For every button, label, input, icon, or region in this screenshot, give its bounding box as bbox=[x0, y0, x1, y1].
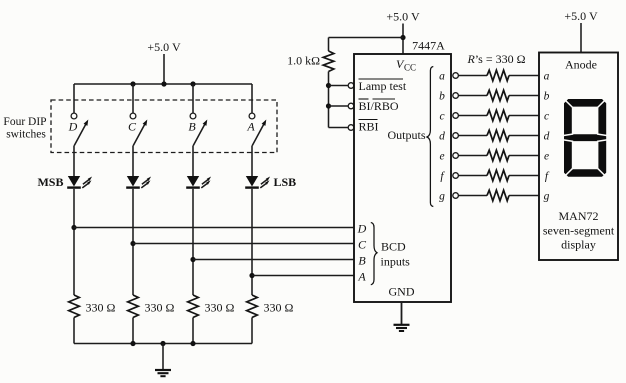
junction dot lamp-test branch bbox=[326, 83, 331, 88]
junction dot B column on bus bbox=[190, 81, 195, 86]
pin bubble output g bbox=[453, 193, 459, 199]
svg-text:BCD: BCD bbox=[381, 240, 406, 254]
pin label segment c (display) bbox=[544, 111, 549, 123]
wire top of R5 bbox=[328, 38, 330, 52]
label R5 value 1.0 kohm bbox=[287, 54, 320, 68]
svg-text:g: g bbox=[439, 191, 445, 203]
pin label segment g (display) bbox=[544, 191, 550, 203]
svg-text:BI/RBO: BI/RBO bbox=[359, 99, 399, 113]
svg-text:1.0 kΩ: 1.0 kΩ bbox=[287, 54, 320, 68]
wire A column from bus to switch bbox=[251, 84, 253, 113]
wire resistor Rd to display bbox=[509, 135, 539, 137]
svg-text:Anode: Anode bbox=[565, 58, 597, 72]
pin label BCD input B bbox=[358, 253, 366, 267]
wire resistor R3 to ground bus bbox=[192, 318, 194, 344]
LED D1 (D column) bbox=[67, 176, 92, 188]
pin bubble RBI bbox=[348, 125, 354, 131]
switch SC blade with arrow bbox=[133, 120, 147, 146]
wire LED B down through tap to resistor bbox=[192, 189, 194, 295]
label BCD inputs bbox=[381, 240, 411, 269]
wire resistor Re to display bbox=[509, 155, 539, 157]
junction dot A tap bbox=[249, 273, 254, 278]
pin label output a (7447A) bbox=[439, 71, 445, 83]
label R4 value 330 ohm bbox=[264, 301, 294, 315]
svg-text:B: B bbox=[188, 120, 196, 134]
wire output b to resistor bbox=[458, 95, 487, 97]
switch SD blade with arrow bbox=[74, 120, 88, 146]
wire resistor Ra to display bbox=[509, 75, 539, 77]
wire GND pin to ground bbox=[401, 302, 403, 324]
label Four DIP switches bbox=[3, 116, 46, 141]
svg-text:330 Ω: 330 Ω bbox=[264, 301, 294, 315]
junction dot Vcc branch bbox=[400, 35, 405, 40]
wire resistor Rc to display bbox=[509, 115, 539, 117]
wire output g to resistor bbox=[458, 195, 487, 197]
brace for outputs a-g bbox=[427, 67, 433, 207]
label R2 value 330 ohm bbox=[145, 301, 175, 315]
junction dot C on ground bus bbox=[130, 341, 135, 346]
svg-text:CC: CC bbox=[404, 63, 416, 73]
wire branch to 1.0 k resistor bbox=[329, 37, 404, 39]
junction dot ground stem on bus bbox=[160, 341, 165, 346]
junction dot D tap bbox=[71, 225, 76, 230]
label R's = 330 ohm bbox=[466, 52, 525, 66]
label seven-segment bbox=[543, 224, 615, 238]
svg-text:C: C bbox=[358, 237, 367, 251]
wire switch B to LED bbox=[192, 146, 194, 177]
pin label output g (7447A) bbox=[439, 191, 445, 203]
junction dot B on ground bus bbox=[190, 341, 195, 346]
svg-text:C: C bbox=[128, 120, 137, 134]
pin label segment d (display) bbox=[544, 131, 550, 143]
junction dot C tap bbox=[130, 241, 135, 246]
pin label segment a (display) bbox=[544, 71, 550, 83]
svg-text:a: a bbox=[439, 71, 445, 83]
resistor R2 330 ohm (column C) bbox=[128, 295, 139, 318]
pin label GND bbox=[389, 285, 415, 299]
svg-text:c: c bbox=[439, 111, 444, 123]
wire R5 down to RBI branch bbox=[328, 72, 330, 128]
svg-text:R’s = 330 Ω: R’s = 330 Ω bbox=[466, 52, 525, 66]
svg-text:D: D bbox=[357, 221, 367, 235]
LED D4 (A column) bbox=[245, 176, 270, 188]
svg-text:a: a bbox=[544, 71, 550, 83]
pin label RBI (active low) bbox=[359, 120, 379, 134]
switch SD contact circle bbox=[71, 113, 77, 119]
switch SB blade with arrow bbox=[193, 120, 207, 146]
svg-text:7447A: 7447A bbox=[412, 39, 445, 53]
pin bubble BI/RBO bbox=[348, 103, 354, 109]
wire bottom ground bus bbox=[74, 343, 252, 345]
resistor Rb 330 ohm bbox=[487, 90, 509, 101]
wire D column from bus to switch bbox=[73, 84, 75, 113]
display U2 MAN72 body bbox=[539, 53, 618, 261]
switch SD label D bbox=[68, 120, 78, 134]
svg-text:GND: GND bbox=[389, 285, 415, 299]
wire BCD D tap to decoder bbox=[74, 227, 354, 229]
wire output a to resistor bbox=[458, 75, 487, 77]
wire output d to resistor bbox=[458, 135, 487, 137]
svg-text:Lamp test: Lamp test bbox=[359, 79, 407, 93]
junction dot BI/RBO branch bbox=[326, 103, 331, 108]
svg-text:e: e bbox=[544, 151, 549, 163]
resistor R1 330 ohm (column D) bbox=[69, 295, 80, 318]
wire LED A down through tap to resistor bbox=[251, 189, 253, 295]
wire C column from bus to switch bbox=[132, 84, 134, 113]
resistor R3 330 ohm (column B) bbox=[188, 295, 199, 318]
svg-text:f: f bbox=[440, 171, 445, 183]
wire LED D down through tap to resistor bbox=[73, 189, 75, 295]
node +5.0 V supply label (switches) bbox=[147, 40, 181, 54]
wire switch C to LED bbox=[132, 146, 134, 177]
svg-text:330 Ω: 330 Ω bbox=[145, 301, 175, 315]
resistor R4 330 ohm (column A) bbox=[247, 295, 258, 318]
svg-text:b: b bbox=[544, 91, 550, 103]
pin label segment b (display) bbox=[544, 91, 550, 103]
pin label output c (7447A) bbox=[439, 111, 444, 123]
pin label segment f (display) bbox=[545, 171, 550, 183]
switch SB label B bbox=[188, 120, 196, 134]
svg-text:seven-segment: seven-segment bbox=[543, 224, 615, 238]
display digit 8 (all segments lit) bbox=[563, 98, 607, 177]
pin bubble output a bbox=[453, 73, 459, 79]
wire resistor R2 to ground bus bbox=[132, 318, 134, 344]
svg-text:e: e bbox=[439, 151, 444, 163]
wire +5V to Vcc pin bbox=[402, 24, 404, 55]
resistor R5 1.0 kohm bbox=[323, 51, 334, 72]
label Outputs bbox=[387, 128, 425, 142]
wire B column from bus to switch bbox=[192, 84, 194, 113]
op IC U1 7447A body bbox=[354, 54, 451, 302]
label LSB bbox=[274, 175, 297, 189]
pin bubble output b bbox=[453, 93, 459, 99]
wire output c to resistor bbox=[458, 115, 487, 117]
svg-text:A: A bbox=[357, 269, 366, 283]
pin label BCD input D bbox=[357, 221, 367, 235]
pin bubble output e bbox=[453, 153, 459, 159]
svg-text:switches: switches bbox=[6, 129, 46, 141]
wire resistor R1 to ground bus bbox=[73, 318, 75, 344]
LED D3 (B column) bbox=[186, 176, 211, 188]
svg-text:g: g bbox=[544, 191, 550, 203]
svg-text:A: A bbox=[246, 120, 255, 134]
resistor Rc 330 ohm bbox=[487, 110, 509, 121]
svg-text:+5.0 V: +5.0 V bbox=[147, 40, 181, 54]
switch SC contact circle bbox=[130, 113, 136, 119]
svg-text:f: f bbox=[545, 171, 550, 183]
wire to lamp test pin bbox=[329, 85, 349, 87]
label R1 value 330 ohm bbox=[86, 301, 116, 315]
wire LED C down through tap to resistor bbox=[132, 189, 134, 295]
pin label Anode bbox=[565, 58, 597, 72]
pin label Vcc bbox=[396, 57, 416, 73]
label display bbox=[561, 238, 596, 252]
resistor Re 330 ohm bbox=[487, 150, 509, 161]
wire to RBI pin bbox=[329, 127, 349, 129]
svg-text:D: D bbox=[68, 120, 78, 134]
junction dot +5V stub on bus bbox=[161, 81, 166, 86]
node +5.0 V supply label (7447A) bbox=[386, 10, 420, 24]
label MAN72 bbox=[558, 209, 598, 223]
wire BCD C tap to decoder bbox=[133, 243, 354, 245]
svg-text:330 Ω: 330 Ω bbox=[205, 301, 235, 315]
junction dot B tap bbox=[190, 257, 195, 262]
label MSB bbox=[37, 175, 63, 189]
switch SA blade with arrow bbox=[252, 120, 266, 146]
switch SB contact circle bbox=[190, 113, 196, 119]
svg-text:+5.0 V: +5.0 V bbox=[386, 10, 420, 24]
wire +5V to display anode bbox=[580, 23, 582, 53]
pin label output d (7447A) bbox=[439, 131, 445, 143]
switch SA label A bbox=[246, 120, 255, 134]
svg-text:d: d bbox=[544, 131, 550, 143]
wire resistor Rf to display bbox=[509, 175, 539, 177]
svg-text:b: b bbox=[439, 91, 445, 103]
wire top supply bus bbox=[74, 83, 252, 85]
resistor Rd 330 ohm bbox=[487, 130, 509, 141]
svg-text:c: c bbox=[544, 111, 549, 123]
wire resistor Rg to display bbox=[509, 195, 539, 197]
wire resistor Rb to display bbox=[509, 95, 539, 97]
svg-text:MAN72: MAN72 bbox=[558, 209, 598, 223]
brace for BCD inputs bbox=[371, 223, 377, 285]
svg-text:+5.0 V: +5.0 V bbox=[564, 9, 598, 23]
wire +5V stub down to bus bbox=[163, 54, 165, 84]
node +5.0 V supply label (display) bbox=[564, 9, 598, 23]
wire BCD B tap to decoder bbox=[193, 259, 354, 261]
wire output e to resistor bbox=[458, 155, 487, 157]
ground symbol (left) bbox=[155, 344, 171, 377]
pin label output f (7447A) bbox=[440, 171, 445, 183]
svg-text:LSB: LSB bbox=[274, 175, 297, 189]
DIP switch dashed enclosure bbox=[51, 100, 277, 153]
wire resistor R4 to ground bus bbox=[251, 318, 253, 344]
pin label BCD input A bbox=[357, 269, 366, 283]
svg-text:B: B bbox=[358, 253, 366, 267]
switch SA contact circle bbox=[249, 113, 255, 119]
pin label BI/RBO (active low) bbox=[359, 99, 399, 113]
pin label output e (7447A) bbox=[439, 151, 444, 163]
svg-text:display: display bbox=[561, 238, 596, 252]
junction dot C column on bus bbox=[130, 81, 135, 86]
pin bubble lamp test bbox=[348, 83, 354, 89]
LED D2 (C column) bbox=[126, 176, 151, 188]
svg-text:inputs: inputs bbox=[381, 255, 411, 269]
pin bubble output d bbox=[453, 133, 459, 139]
wire switch A to LED bbox=[251, 146, 253, 177]
wire switch D to LED bbox=[73, 146, 75, 177]
resistor Ra 330 ohm bbox=[487, 70, 509, 81]
svg-text:Outputs: Outputs bbox=[387, 128, 425, 142]
ground symbol (7447A) bbox=[394, 302, 410, 331]
pin label BCD input C bbox=[358, 237, 367, 251]
svg-text:Four DIP: Four DIP bbox=[3, 116, 46, 128]
switch SC label C bbox=[128, 120, 137, 134]
svg-text:MSB: MSB bbox=[37, 175, 63, 189]
wire to BI/RBO pin bbox=[329, 105, 349, 107]
pin label output b (7447A) bbox=[439, 91, 445, 103]
svg-text:d: d bbox=[439, 131, 445, 143]
label 7447A bbox=[412, 39, 445, 53]
pin label Lamp test (active low) bbox=[359, 79, 407, 93]
pin bubble output f bbox=[453, 173, 459, 179]
resistor Rg 330 ohm bbox=[487, 190, 509, 201]
wire BCD A tap to decoder bbox=[252, 275, 354, 277]
label R3 value 330 ohm bbox=[205, 301, 235, 315]
pin bubble output c bbox=[453, 113, 459, 119]
resistor Rf 330 ohm bbox=[487, 170, 509, 181]
wire output f to resistor bbox=[458, 175, 487, 177]
pin label segment e (display) bbox=[544, 151, 549, 163]
svg-text:RBI: RBI bbox=[359, 120, 379, 134]
svg-text:330 Ω: 330 Ω bbox=[86, 301, 116, 315]
